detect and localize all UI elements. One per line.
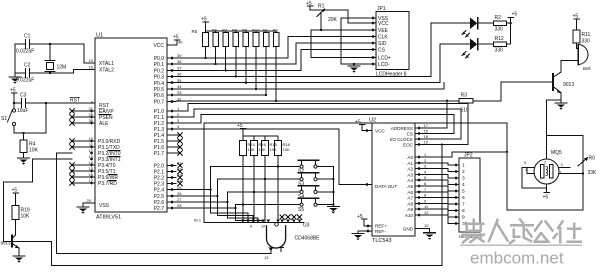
wire A3 to JP2 pin3 — [422, 174, 453, 178]
button S3 — [299, 173, 319, 181]
button S5 — [299, 198, 319, 206]
svg-text:10K: 10K — [283, 147, 290, 152]
resistor R7 — [223, 31, 229, 71]
wire P0.2 row to CS — [176, 50, 372, 71]
wire A0 to sensor divider — [422, 152, 507, 157]
gate U3 CD4068BE input rail — [204, 222, 304, 224]
U2 right stubs — [415, 128, 422, 215]
svg-text:AT89LV51: AT89LV51 — [96, 215, 121, 221]
U1 right pin names — [153, 43, 164, 212]
resistor R4 10K — [20, 133, 27, 158]
connector JP2 Header 10 — [459, 153, 483, 240]
svg-text:0.022uF: 0.022uF — [16, 49, 34, 55]
svg-text:RST: RST — [70, 98, 80, 104]
wire A4 to JP2 pin4 — [422, 180, 453, 184]
svg-text:10K: 10K — [270, 147, 277, 152]
wire A1 to JP2 pin1 — [422, 163, 453, 165]
wire S5 lead row — [235, 204, 300, 206]
svg-text:330: 330 — [582, 39, 591, 45]
svg-text:3: 3 — [561, 163, 563, 167]
svg-text:12M: 12M — [57, 65, 67, 71]
svg-text:ALE: ALE — [99, 121, 109, 127]
svg-text:A10: A10 — [405, 213, 414, 218]
+5 keypad — [240, 129, 246, 136]
resistor R11 330 — [573, 30, 580, 49]
svg-text:34: 34 — [177, 84, 182, 89]
overlines on pin names — [99, 108, 120, 180]
ground Q3 emitter — [555, 103, 567, 110]
svg-text:18: 18 — [89, 64, 94, 69]
svg-text:10K: 10K — [259, 147, 266, 152]
svg-text:5: 5 — [462, 189, 465, 195]
svg-text:IN 1: IN 1 — [194, 219, 201, 223]
U1 left pin numbers — [87, 58, 94, 203]
resistor R19 10K — [12, 206, 19, 236]
wire A7 to JP2 pin7 — [422, 198, 453, 204]
svg-text:+5: +5 — [543, 195, 549, 201]
wire EOC down to Q4 base return — [441, 145, 443, 266]
resistor R9 — [243, 31, 249, 83]
wire P2.7 to S5 column — [176, 205, 235, 221]
resistor R2 330 — [493, 21, 510, 25]
wire A10 to JP2 pin10 — [422, 215, 453, 224]
svg-text:2: 2 — [462, 169, 465, 175]
U3 unused input stubs with X — [280, 219, 301, 222]
svg-text:8: 8 — [424, 193, 427, 198]
wire S1 to R4 and to RST node — [14, 103, 46, 133]
adc U2 TLC543 body — [369, 118, 415, 245]
no-connect X marks P1.4-P1.7 — [178, 133, 182, 155]
svg-text:27: 27 — [177, 197, 182, 202]
U1 left pin arrows at chip edge — [90, 109, 94, 184]
sensor MQ5 — [534, 136, 559, 185]
JP1 stub diamonds — [371, 16, 375, 65]
svg-text:7: 7 — [424, 187, 427, 192]
svg-text:VCC: VCC — [153, 43, 164, 49]
wire P0.1 row to SID — [176, 43, 372, 64]
svg-text:CS: CS — [407, 131, 413, 136]
svg-text:+5: +5 — [357, 214, 363, 220]
svg-text:4: 4 — [424, 169, 427, 174]
resistor R18 10K — [275, 136, 282, 223]
svg-text:R10: R10 — [252, 28, 260, 33]
MQ5 bottom +5 — [544, 184, 550, 193]
resistor R11b — [263, 31, 269, 95]
LED D1 — [460, 18, 493, 38]
no-connect X marks P2.0-P2.3 — [178, 163, 182, 186]
svg-text:37: 37 — [177, 65, 182, 70]
U1 right pin numbers — [177, 40, 183, 209]
resistor R14 10K — [240, 136, 247, 223]
ground Q4 emitter — [13, 256, 25, 263]
U1 VSS ground wire pin20 — [83, 203, 95, 207]
ground REF- — [352, 234, 364, 241]
mcu U1 AT89LV51 body — [95, 33, 167, 221]
wire P0.5 row — [176, 83, 444, 89]
+5 LEDs — [508, 18, 514, 24]
svg-text:CLK: CLK — [378, 35, 388, 41]
svg-text:3: 3 — [177, 118, 180, 123]
svg-text:5: 5 — [424, 175, 427, 180]
wire P0.7 row to R3 — [176, 100, 459, 102]
wire A8 to JP2 pin8 — [422, 203, 453, 210]
svg-text:P2.5: P2.5 — [154, 194, 165, 200]
svg-text:P0.3: P0.3 — [154, 75, 165, 81]
svg-text:19: 19 — [89, 58, 94, 63]
U3 pin 7 stub — [279, 247, 284, 251]
wire VEE row — [311, 29, 366, 31]
svg-text:6: 6 — [462, 195, 465, 201]
connector JP1 LCDHeader 8 — [376, 6, 409, 78]
svg-text:19: 19 — [424, 140, 429, 145]
wire +5 to VCC JP1 — [310, 10, 366, 23]
svg-text:0.022uF: 0.022uF — [16, 78, 34, 84]
svg-text:GND: GND — [403, 227, 414, 232]
svg-text:+5: +5 — [201, 17, 207, 23]
svg-text:13: 13 — [264, 255, 269, 260]
wire bell emitter node to MQ5 rail — [547, 100, 584, 136]
U1 right pin stubs — [167, 45, 179, 208]
wire S4 lead row — [227, 191, 300, 193]
svg-text:P2.7: P2.7 — [154, 206, 165, 212]
+5 for R19 — [13, 193, 19, 206]
svg-text:10K: 10K — [21, 214, 31, 220]
wire A2 to JP2 pin2 — [422, 169, 453, 172]
wire U3 output run — [57, 252, 271, 254]
svg-text:C2: C2 — [24, 63, 31, 69]
+5 for LCD — [307, 6, 313, 10]
svg-text:10: 10 — [261, 225, 265, 229]
U3 bubble pin — [275, 223, 279, 227]
left no-connect X marks EA PSEN ALE P3.0 P3.1 P3.4-P3.7 — [70, 109, 74, 185]
wire P0.3 row to LED D1 — [176, 23, 460, 76]
svg-text:REF+: REF+ — [375, 224, 387, 229]
svg-text:39: 39 — [177, 53, 182, 58]
resistor R5 — [203, 31, 209, 58]
wire sensor net vertical — [507, 123, 583, 210]
svg-text:+5: +5 — [355, 120, 361, 126]
wire P1.2 to CS nest — [176, 115, 454, 134]
watermark underline — [461, 244, 581, 246]
resistor R8 — [233, 31, 239, 77]
svg-text:I/O CLOCK: I/O CLOCK — [390, 137, 414, 142]
svg-text:P0.4: P0.4 — [154, 81, 165, 87]
svg-text:A6: A6 — [407, 190, 413, 195]
wire C1 row to XTAL1 — [50, 44, 84, 63]
wire A6 to JP2 pin6 — [422, 192, 453, 198]
svg-text:REF-: REF- — [375, 229, 386, 234]
svg-text:XTAL1: XTAL1 — [99, 61, 114, 67]
svg-text:VCC: VCC — [378, 21, 389, 27]
svg-text:S5: S5 — [298, 207, 304, 213]
svg-text:330: 330 — [495, 48, 504, 54]
U2 pin names — [375, 128, 397, 234]
svg-text:embcom.net: embcom.net — [470, 249, 564, 268]
svg-text:+5: +5 — [237, 123, 243, 129]
svg-text:33: 33 — [177, 90, 182, 95]
svg-text:2: 2 — [177, 112, 180, 117]
svg-text:A2: A2 — [407, 167, 413, 172]
svg-text:15: 15 — [424, 129, 429, 134]
svg-text:20: 20 — [87, 198, 92, 203]
switch S1 — [8, 103, 16, 133]
+5 REF+ — [361, 219, 372, 226]
ground at VSS — [77, 207, 89, 214]
svg-text:CS: CS — [378, 48, 386, 54]
+5 pullup bus — [203, 22, 209, 31]
svg-text:8: 8 — [462, 208, 465, 214]
crystal Y1 12M — [45, 44, 55, 73]
svg-text:P3.7/RD: P3.7/RD — [98, 181, 117, 187]
svg-text:R1: R1 — [273, 28, 279, 33]
transistor Q3 9013 — [553, 61, 562, 104]
wire P3.2/INT0 to U3 output — [57, 153, 72, 253]
svg-text:R3: R3 — [461, 93, 468, 99]
svg-text:Bell: Bell — [583, 66, 591, 71]
MQ5 pin numbers — [524, 161, 563, 175]
svg-text:10K: 10K — [248, 147, 255, 152]
svg-text:2: 2 — [544, 161, 546, 165]
svg-text:VEE: VEE — [378, 28, 389, 34]
resistor R12 330 — [493, 42, 510, 46]
svg-text:4: 4 — [462, 182, 465, 188]
svg-text:+5: +5 — [512, 12, 518, 18]
svg-text:9013: 9013 — [563, 82, 574, 88]
svg-text:9: 9 — [91, 100, 94, 105]
svg-text:R9: R9 — [242, 28, 248, 33]
watermark chinese characters — [463, 220, 581, 244]
svg-text:330: 330 — [495, 27, 504, 33]
U2 right pin numbers — [424, 123, 430, 215]
svg-text:+5: +5 — [12, 188, 18, 194]
wire R2 to R12 join — [510, 23, 512, 44]
+5 U2 VCC — [359, 125, 372, 131]
wire P0.4 row to LED D2 — [176, 44, 460, 82]
svg-text:P2.2: P2.2 — [154, 176, 165, 182]
svg-text:+5: +5 — [10, 88, 16, 94]
svg-text:P0.2: P0.2 — [154, 68, 165, 74]
wire P2.6 to S4 column — [176, 192, 227, 218]
svg-text:P0.5: P0.5 — [154, 87, 165, 93]
svg-text:28: 28 — [177, 203, 182, 208]
wire A5 to JP2 pin5 — [422, 186, 453, 191]
wire VSS down to LCD- row — [341, 18, 366, 64]
wire key column steps into U3 inputs — [211, 213, 263, 223]
svg-text:+5: +5 — [573, 14, 579, 20]
JP1 pin stubs — [366, 18, 376, 64]
svg-text:VSS: VSS — [99, 203, 110, 209]
svg-text:P2.6: P2.6 — [154, 200, 165, 206]
svg-text:6: 6 — [424, 181, 427, 186]
resistor R16 10K — [251, 136, 258, 223]
svg-text:R12: R12 — [495, 36, 504, 42]
JP2 stubs — [453, 165, 459, 224]
wire P0.6 row — [176, 94, 266, 96]
ground JP1 — [353, 64, 355, 66]
capacitor C2 0.022uF — [15, 69, 74, 78]
wire pullup top bus — [206, 30, 277, 32]
resistor R10 — [253, 31, 259, 89]
svg-text:C3: C3 — [20, 93, 27, 99]
U3 output pin 13 — [269, 248, 274, 254]
svg-text:XTAL2: XTAL2 — [99, 68, 114, 74]
wire P3.3/INT1 to Q4 base — [4, 159, 72, 242]
svg-text:VCC: VCC — [375, 128, 385, 133]
svg-text:JP2: JP2 — [464, 153, 473, 159]
svg-text:3: 3 — [462, 176, 465, 182]
svg-text:A9: A9 — [407, 207, 413, 212]
svg-text:P0.1: P0.1 — [154, 62, 165, 68]
svg-text:U2: U2 — [369, 118, 376, 124]
wire REF- to ground — [358, 231, 372, 233]
svg-text:1: 1 — [177, 106, 180, 111]
wire A9 to JP2 pin9 — [422, 209, 453, 217]
svg-text:10K: 10K — [29, 148, 39, 154]
wire P1.3 to DATA OUT — [176, 129, 372, 185]
svg-text:33K: 33K — [588, 170, 598, 176]
+5 for reset — [11, 93, 17, 103]
button S2 — [299, 160, 319, 168]
wire left leg C1-C2 to ground — [14, 44, 16, 77]
svg-text:9: 9 — [424, 198, 427, 203]
svg-text:26: 26 — [177, 191, 182, 196]
U1 right pin junction diamonds — [170, 56, 174, 210]
svg-text:CD4068BE: CD4068BE — [295, 236, 321, 242]
svg-text:P2.1: P2.1 — [154, 169, 165, 175]
svg-text:5: 5 — [524, 161, 526, 165]
svg-text:18: 18 — [424, 134, 429, 139]
svg-text:+5: +5 — [173, 35, 179, 41]
capacitor C1 0.022uF — [15, 40, 50, 49]
JP2 pin numbers — [462, 163, 468, 228]
svg-text:P0.6: P0.6 — [154, 93, 165, 99]
svg-text:R1: R1 — [263, 28, 269, 33]
button S4 — [299, 186, 319, 194]
wire S3 lead row — [217, 178, 300, 180]
LED D2 — [460, 39, 493, 59]
wire ADDRESS to P0.7 net — [422, 101, 447, 128]
svg-text:R6: R6 — [212, 28, 218, 33]
svg-text:7: 7 — [462, 202, 465, 208]
svg-text:2: 2 — [424, 158, 427, 163]
wire U2 GND pin 10 — [415, 229, 430, 233]
svg-text:A8: A8 — [407, 201, 413, 206]
svg-text:P0.7: P0.7 — [154, 99, 165, 105]
resistor R12b — [273, 31, 279, 101]
svg-text:12: 12 — [424, 210, 429, 215]
svg-text:A3: A3 — [407, 172, 413, 177]
svg-text:1: 1 — [424, 152, 427, 157]
resistor R6 — [213, 31, 219, 64]
wire LCD+ row — [311, 30, 366, 57]
ground keypad — [328, 207, 340, 214]
svg-text:LCD+: LCD+ — [378, 55, 391, 61]
svg-text:10: 10 — [424, 223, 429, 228]
U1 VCC +5 — [174, 40, 180, 45]
svg-text:LCD-: LCD- — [378, 62, 390, 68]
gate U3 body — [267, 226, 286, 248]
svg-text:R1: R1 — [318, 4, 325, 10]
ground xtal — [9, 77, 21, 84]
transistor Q4 9013 — [12, 235, 20, 256]
svg-text:R8: R8 — [232, 28, 238, 33]
svg-text:SID: SID — [378, 41, 387, 47]
wire buttons common to ground — [317, 167, 333, 207]
svg-text:ADDRESS: ADDRESS — [391, 126, 413, 131]
resistor R15 10K — [262, 136, 269, 223]
wire S2 lead row — [211, 166, 300, 168]
U1 left pin names — [98, 61, 121, 209]
ground U2 GND — [424, 233, 436, 240]
svg-text:U3: U3 — [303, 223, 310, 229]
svg-text:1: 1 — [462, 163, 465, 169]
MQ5 left loop — [522, 168, 547, 188]
U1 left pin stubs — [72, 63, 95, 183]
wire keypad top bus — [243, 135, 278, 137]
junction dots pullups to P0 rows — [204, 57, 277, 102]
svg-text:P2.4: P2.4 — [154, 188, 165, 194]
svg-text:MQ5: MQ5 — [551, 150, 562, 156]
wire P1.0 to EOC nest — [176, 104, 468, 145]
svg-text:JP1: JP1 — [377, 6, 386, 12]
svg-text:P0.0: P0.0 — [154, 56, 165, 62]
svg-text:4: 4 — [177, 124, 180, 129]
wire key row to sensor net — [204, 123, 507, 223]
svg-text:A5: A5 — [407, 184, 413, 189]
svg-text:A0: A0 — [407, 155, 413, 160]
svg-text:10uF: 10uF — [17, 108, 28, 114]
svg-text:9: 9 — [462, 215, 465, 221]
ground R4 — [18, 158, 30, 165]
svg-text:C1: C1 — [24, 34, 31, 40]
svg-text:R5: R5 — [192, 29, 198, 34]
U3 input pin triangles — [241, 219, 280, 222]
svg-text:11: 11 — [424, 204, 429, 209]
svg-text:35: 35 — [177, 78, 182, 83]
svg-text:+5: +5 — [306, 1, 312, 7]
svg-text:U1: U1 — [96, 33, 103, 39]
potentiometer R1 20K — [317, 9, 325, 30]
svg-text:DATA OUT: DATA OUT — [375, 184, 397, 189]
wire P2.4 to S2 column — [176, 167, 211, 214]
JP1 pin names — [378, 16, 391, 68]
svg-text:P1.7: P1.7 — [154, 151, 165, 157]
+5 for R11 — [574, 19, 580, 30]
wire P0.0 row to CLK — [176, 37, 372, 58]
svg-text:R11: R11 — [582, 32, 591, 38]
svg-text:P2.3: P2.3 — [154, 182, 165, 188]
wire R3 to Q3 base — [501, 82, 553, 101]
svg-text:3: 3 — [424, 164, 427, 169]
svg-text:17: 17 — [424, 123, 429, 128]
wire Q4 base row to EOC return — [4, 242, 442, 266]
svg-text:38: 38 — [177, 59, 182, 64]
svg-text:A7: A7 — [407, 196, 413, 201]
resistor R3 510 — [459, 99, 501, 103]
svg-text:A4: A4 — [407, 178, 413, 183]
svg-text:9: 9 — [250, 225, 252, 229]
MQ5 right leads — [559, 168, 584, 174]
svg-text:R2: R2 — [495, 15, 502, 21]
svg-text:S1: S1 — [1, 116, 7, 122]
U3 input pin numbers — [194, 219, 265, 229]
svg-text:R7: R7 — [222, 28, 228, 33]
capacitor C3 10uF — [14, 99, 95, 108]
wire P1.1 to IOCLK nest — [176, 109, 461, 139]
svg-text:EOC: EOC — [403, 142, 414, 147]
svg-text:20K: 20K — [328, 17, 338, 23]
svg-text:TLC543: TLC543 — [372, 238, 392, 244]
